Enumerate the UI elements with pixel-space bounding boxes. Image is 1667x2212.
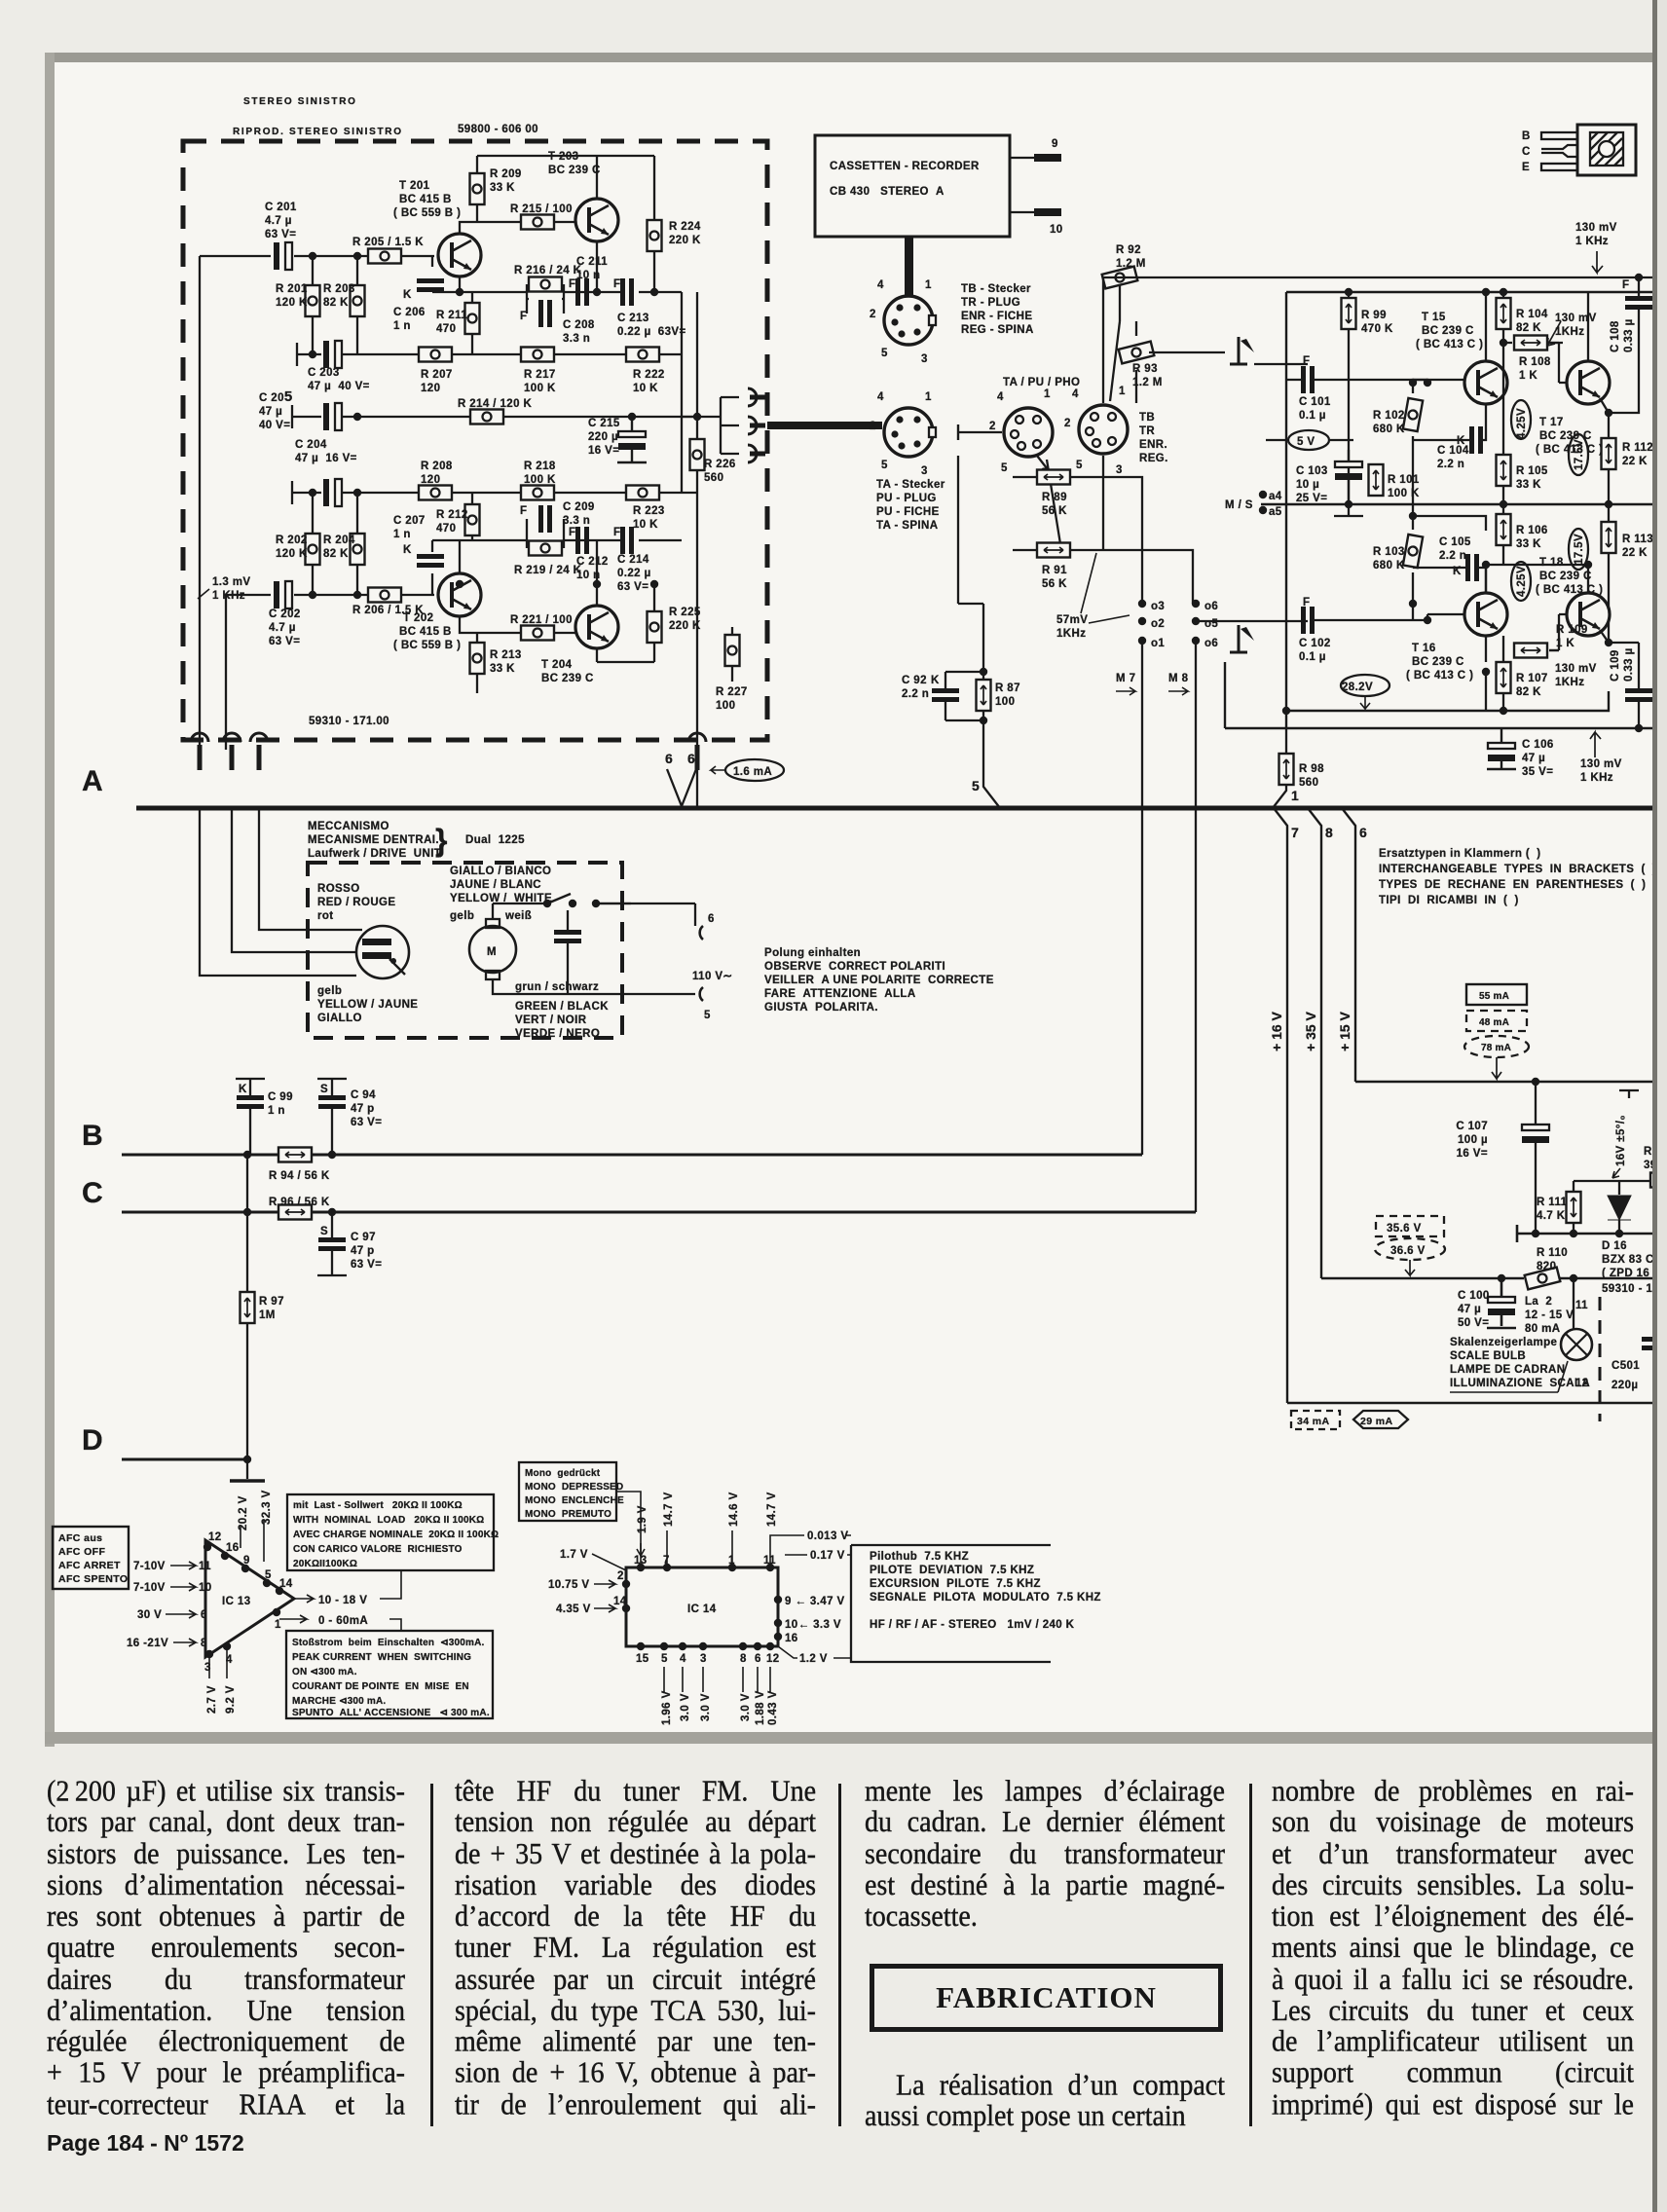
svg-text:MONO ENCLENCHE: MONO ENCLENCHE (525, 1495, 624, 1506)
svg-text:10← 3.3 V: 10← 3.3 V (785, 1619, 841, 1631)
capacitor C106 (1487, 728, 1554, 778)
mid supply rail (1517, 1225, 1667, 1242)
svg-text:0.1 µ: 0.1 µ (1299, 651, 1326, 663)
svg-text:K: K (403, 544, 412, 556)
svg-text:R 201: R 201 (276, 283, 308, 295)
svg-text:5: 5 (881, 348, 888, 359)
svg-text:57mV: 57mV (1056, 614, 1088, 626)
svg-text:1.2 M: 1.2 M (1116, 258, 1146, 270)
svg-text:63 V=: 63 V= (351, 1117, 382, 1128)
svg-text:SEGNALE PILOTA MODULATO 7.5: SEGNALE PILOTA MODULATO 7.5 KHZ (870, 1592, 1101, 1604)
svg-text:C 105: C 105 (1439, 536, 1471, 548)
svg-text:1.9 V: 1.9 V (637, 1505, 648, 1533)
svg-text:ON ⊲300 mA.: ON ⊲300 mA. (292, 1667, 357, 1677)
svg-text:6: 6 (708, 913, 715, 925)
capacitor C100 (1458, 1278, 1516, 1329)
ground below D (230, 1456, 265, 1481)
svg-text:2.2 n: 2.2 n (1439, 550, 1466, 562)
resistor R104 (1497, 292, 1548, 343)
motor switch (493, 894, 631, 919)
resistor R216 (514, 265, 582, 292)
svg-text:32.3 V: 32.3 V (261, 1490, 273, 1525)
svg-text:40 V=: 40 V= (259, 420, 290, 431)
svg-text:R 221 / 100: R 221 / 100 (510, 614, 573, 626)
svg-text:TR - PLUG: TR - PLUG (961, 297, 1020, 309)
mid rail (1261, 503, 1667, 505)
svg-text:2: 2 (870, 421, 876, 432)
resistor R89 (1037, 470, 1070, 518)
svg-text:a4: a4 (1269, 491, 1282, 502)
svg-text:8: 8 (740, 1653, 747, 1665)
svg-text:7-10V: 7-10V (133, 1561, 166, 1572)
svg-text:4: 4 (680, 1653, 686, 1665)
dial module dashed boundary (1575, 1297, 1600, 1421)
svg-text:4.7 K: 4.7 K (1537, 1210, 1566, 1222)
resistor R208 (419, 461, 453, 500)
svg-text:47 p: 47 p (351, 1245, 375, 1257)
capacitor C208 (520, 300, 595, 345)
test 36.6V oval (1375, 1238, 1445, 1275)
svg-text:IC 14: IC 14 (687, 1604, 717, 1615)
svg-text:MECANISME DENTRAI.: MECANISME DENTRAI. (308, 834, 439, 846)
svg-text:6: 6 (687, 751, 695, 766)
svg-text:56 K: 56 K (1042, 578, 1067, 590)
svg-text:gelb: gelb (450, 910, 474, 922)
capacitor C97 (317, 1212, 382, 1275)
svg-text:PILOTE DEVIATION 7.5 KHZ: PILOTE DEVIATION 7.5 KHZ (870, 1565, 1034, 1576)
svg-text:VERT / NOIR: VERT / NOIR (515, 1014, 587, 1026)
svg-text:1 KHz: 1 KHz (212, 590, 245, 602)
svg-text:o5: o5 (1204, 618, 1218, 630)
svg-text:TYPES DE RECHANE EN PARENT: TYPES DE RECHANE EN PARENTHESES ( ) (1379, 879, 1646, 891)
amp block outline (1225, 292, 1667, 728)
svg-text:47 µ 40 V=: 47 µ 40 V= (308, 381, 370, 392)
bus line C (122, 1211, 1196, 1214)
svg-text:La 2: La 2 (1525, 1296, 1552, 1308)
stereo decoder IC14 (548, 1492, 851, 1725)
resistor R204 (323, 534, 365, 565)
svg-text:10.75 V: 10.75 V (548, 1579, 589, 1591)
wire colours left (317, 883, 418, 1024)
svg-text:VEILLER A UNE POLARITE CORRE: VEILLER A UNE POLARITE CORRECTE (764, 975, 994, 986)
svg-text:HF / RF / AF - STEREO 1mV /: HF / RF / AF - STEREO 1mV / 240 K (870, 1619, 1075, 1631)
svg-text:2.2 n: 2.2 n (1437, 459, 1464, 470)
svg-text:2: 2 (870, 309, 876, 320)
FABRICATION box (870, 1964, 1223, 2032)
svg-text:F: F (1622, 279, 1629, 291)
mono pressed box (519, 1462, 645, 1556)
svg-text:47 µ 16 V=: 47 µ 16 V= (295, 453, 357, 464)
svg-text:D: D (82, 1424, 103, 1456)
resistor R108 (1503, 336, 1567, 383)
frame top gray band (45, 53, 1652, 62)
wires C92/R87 (945, 604, 1000, 808)
svg-text:14.7 V: 14.7 V (766, 1492, 778, 1527)
svg-text:4: 4 (997, 391, 1004, 403)
test current 1.6mA (697, 750, 784, 808)
svg-text:0.17 V: 0.17 V (810, 1550, 845, 1562)
svg-text:C 106: C 106 (1522, 739, 1554, 751)
load note box (287, 1494, 499, 1570)
svg-text:130 mV: 130 mV (1555, 313, 1597, 324)
transistor T202 (393, 573, 481, 651)
svg-text:C: C (1522, 146, 1531, 158)
svg-text:F: F (613, 527, 620, 538)
svg-text:F: F (1303, 597, 1310, 608)
resistor R203 (323, 283, 365, 316)
capacitor C99 (236, 1079, 293, 1155)
svg-text:10 - 18 V: 10 - 18 V (318, 1595, 367, 1606)
+35V rail with R110 (1321, 1247, 1667, 1289)
svg-text:220 µ: 220 µ (588, 431, 618, 443)
svg-text:R 109: R 109 (1556, 624, 1588, 636)
svg-text:56 K: 56 K (1042, 505, 1067, 517)
svg-text:C 107: C 107 (1456, 1121, 1488, 1132)
input level 1.3mV (198, 576, 250, 602)
svg-text:11: 11 (1575, 1300, 1588, 1311)
IC14 output labels right (770, 1535, 851, 1543)
svg-text:BC 239 C: BC 239 C (1422, 325, 1474, 337)
svg-text:AFC aus: AFC aus (58, 1532, 102, 1544)
svg-text:R 91: R 91 (1042, 565, 1067, 576)
svg-text:R 202: R 202 (276, 535, 308, 546)
peak current note box (286, 1631, 493, 1718)
svg-text:F: F (613, 278, 620, 290)
IC13 right labels (294, 1595, 314, 1603)
svg-text:10: 10 (1050, 224, 1063, 236)
svg-text:R 222: R 222 (633, 369, 665, 381)
svg-text:10: 10 (199, 1582, 212, 1594)
svg-text:120: 120 (421, 474, 440, 486)
text column 1 (47, 1776, 405, 2120)
bus line A (136, 806, 1667, 811)
svg-text:R 106: R 106 (1516, 525, 1548, 536)
transistor T18 circle (1549, 565, 1610, 650)
svg-text:16V ±5°/₀: 16V ±5°/₀ (1615, 1115, 1627, 1166)
resistor R209 (470, 168, 522, 204)
svg-text:220µ: 220µ (1611, 1380, 1638, 1391)
svg-text:mit Last - Sollwert 20KΩ II: mit Last - Sollwert 20KΩ II 100KΩ (293, 1500, 463, 1511)
svg-text:28.2V: 28.2V (1342, 682, 1373, 693)
svg-text:o6: o6 (1204, 601, 1218, 612)
level 130mV T15 (1547, 313, 1597, 346)
capacitor C206 (393, 278, 444, 332)
current 48mA dashed (1466, 1011, 1527, 1031)
svg-text:RED / ROUGE: RED / ROUGE (317, 897, 395, 908)
svg-text:12: 12 (1575, 1378, 1589, 1389)
svg-text:470: 470 (436, 323, 456, 335)
svg-text:C 103: C 103 (1296, 465, 1328, 477)
capacitor C203 (308, 341, 370, 392)
capacitor C104 (1413, 426, 1486, 470)
resistor R91 (1037, 543, 1070, 591)
svg-text:T 204: T 204 (541, 659, 573, 671)
svg-text:BC 239 C: BC 239 C (541, 673, 594, 684)
svg-text:100 K: 100 K (1388, 488, 1420, 499)
svg-text:Polung einhalten: Polung einhalten (764, 947, 861, 959)
+16V +35V +15V labels (1269, 1011, 1352, 1051)
svg-text:4.7 µ: 4.7 µ (265, 215, 292, 227)
svg-text:3: 3 (1116, 464, 1123, 476)
svg-text:1 KHz: 1 KHz (1575, 236, 1609, 247)
svg-text:YELLOW / JAUNE: YELLOW / JAUNE (317, 999, 418, 1011)
svg-text:C 211: C 211 (576, 256, 608, 268)
svg-text:47 µ: 47 µ (1522, 753, 1545, 764)
svg-text:8: 8 (1325, 825, 1333, 840)
svg-text:AFC ARRET: AFC ARRET (58, 1560, 121, 1571)
svg-text:34 mA: 34 mA (1297, 1416, 1330, 1427)
svg-text:MONO PREMUTO: MONO PREMUTO (525, 1509, 611, 1520)
svg-text:R 102: R 102 (1373, 410, 1405, 422)
svg-text:16 -21V: 16 -21V (127, 1638, 168, 1649)
svg-text:14: 14 (279, 1578, 293, 1590)
svg-text:S: S (320, 1226, 328, 1237)
socket TB TR ENR REG (1064, 386, 1168, 476)
svg-text:C 208: C 208 (563, 319, 595, 331)
pilot deviation bracket (851, 1545, 1101, 1662)
current 34mA dashed (1291, 1411, 1340, 1429)
svg-text:560: 560 (704, 472, 723, 484)
svg-text:Stoßstrom beim Einschalten: Stoßstrom beim Einschalten ⊲300mA. (292, 1638, 485, 1648)
svg-text:ROSSO: ROSSO (317, 883, 360, 895)
svg-text:K: K (403, 289, 412, 301)
svg-text:R 105: R 105 (1516, 465, 1548, 477)
svg-text:63 V=: 63 V= (351, 1259, 382, 1271)
capacitor C501 (1611, 1337, 1667, 1391)
svg-text:CON CARICO VALORE RICHIESTO: CON CARICO VALORE RICHIESTO (293, 1544, 463, 1555)
svg-text:5: 5 (1076, 460, 1083, 471)
svg-text:0.22 µ 63V=: 0.22 µ 63V= (617, 326, 686, 338)
svg-text:R 87: R 87 (995, 682, 1020, 694)
resistor R219 (514, 541, 582, 577)
svg-text:T 203: T 203 (548, 151, 578, 163)
svg-text:R 211: R 211 (436, 310, 467, 321)
svg-text:BC 239 C: BC 239 C (548, 165, 601, 176)
page right edge line (1652, 0, 1657, 2212)
svg-text:AFC OFF: AFC OFF (58, 1546, 105, 1558)
svg-text:2: 2 (989, 421, 996, 432)
svg-text:R 212: R 212 (436, 509, 468, 521)
svg-text:12 - 15 V: 12 - 15 V (1525, 1309, 1574, 1321)
svg-text:EXCURSION PILOTE 7.5 KHZ: EXCURSION PILOTE 7.5 KHZ (870, 1578, 1041, 1590)
capacitor C207 (393, 515, 444, 568)
svg-text:AFC SPENTO: AFC SPENTO (58, 1573, 128, 1585)
svg-text:BC 239 C: BC 239 C (1412, 656, 1464, 668)
svg-text:R 98: R 98 (1299, 763, 1324, 775)
resistor R225 (648, 607, 701, 643)
pickup cartridge (356, 926, 409, 978)
svg-text:R 213: R 213 (490, 649, 522, 661)
M7 label (1116, 673, 1135, 695)
svg-text:0 - 60mA: 0 - 60mA (318, 1615, 368, 1627)
svg-text:5: 5 (972, 778, 980, 793)
svg-text:( BC 413 C ): ( BC 413 C ) (1406, 670, 1473, 682)
zener diode D16 (1602, 1181, 1667, 1279)
resistor R93 (1119, 321, 1163, 403)
svg-text:130 mV: 130 mV (1555, 663, 1597, 675)
capacitor C103 (1296, 450, 1363, 516)
svg-text:5: 5 (881, 460, 888, 471)
capacitor C213 (613, 278, 686, 338)
svg-text:F: F (520, 505, 527, 517)
frame left gray band (45, 53, 55, 1747)
svg-text:M 8: M 8 (1168, 673, 1189, 684)
svg-text:INTERCHANGEABLE TYPES IN BR: INTERCHANGEABLE TYPES IN BRACKETS ( ) (1379, 864, 1656, 875)
svg-text:K: K (239, 1084, 247, 1095)
svg-text:100 µ: 100 µ (1458, 1134, 1488, 1146)
thick cable to TB plug (905, 237, 913, 297)
svg-text:F: F (520, 311, 527, 322)
svg-text:B: B (82, 1120, 103, 1152)
svg-text:a5: a5 (1269, 506, 1282, 518)
wires lower amp (1413, 458, 1588, 711)
wire long output to amp (1103, 276, 1667, 278)
resistor R102 (1373, 380, 1427, 458)
jack 2 (223, 733, 241, 770)
svg-text:SCALE BULB: SCALE BULB (1450, 1350, 1526, 1362)
svg-text:C 97: C 97 (351, 1232, 376, 1243)
test 28.2V (1341, 675, 1389, 709)
svg-text:OBSERVE CORRECT POLARITI: OBSERVE CORRECT POLARITI (764, 961, 945, 973)
resistor R106 (1497, 504, 1548, 565)
resistor R105 (1497, 343, 1548, 504)
jack R (748, 445, 765, 462)
svg-text:2.7 V: 2.7 V (206, 1685, 218, 1714)
svg-text:o2: o2 (1151, 618, 1165, 630)
page interior (54, 60, 1652, 1737)
text column 2 (455, 1776, 816, 2120)
svg-text:220 K: 220 K (669, 620, 701, 632)
svg-text:47 µ: 47 µ (1458, 1304, 1481, 1315)
svg-text:R 104: R 104 (1516, 309, 1548, 320)
svg-text:1M: 1M (259, 1309, 276, 1321)
svg-text:5: 5 (661, 1653, 668, 1665)
svg-text:C 207: C 207 (393, 515, 426, 527)
svg-text:0.43 V: 0.43 V (767, 1690, 779, 1725)
svg-text:C 206: C 206 (393, 307, 426, 318)
output jacks (left board edge) (191, 733, 706, 770)
transistor T203 (548, 151, 618, 241)
svg-text:CB 430 STEREO A: CB 430 STEREO A (830, 186, 945, 198)
svg-text:MARCHE ⊲300 mA.: MARCHE ⊲300 mA. (292, 1696, 386, 1707)
svg-text:GIUSTA POLARITA.: GIUSTA POLARITA. (764, 1002, 878, 1014)
preamp wires (200, 156, 732, 750)
svg-text:4.35 V: 4.35 V (556, 1604, 591, 1615)
resistor R101 (1369, 464, 1420, 499)
svg-text:R 203: R 203 (323, 283, 355, 295)
svg-text:C 214: C 214 (617, 554, 649, 566)
motor M (469, 919, 516, 979)
svg-text:Ersatztypen in Klammern ( ): Ersatztypen in Klammern ( ) (1379, 848, 1540, 860)
svg-text:9: 9 (243, 1555, 250, 1567)
svg-text:R 101: R 101 (1388, 474, 1420, 486)
svg-text:R 223: R 223 (633, 505, 665, 517)
svg-text:6: 6 (1359, 825, 1367, 840)
svg-text:TB - Stecker: TB - Stecker (961, 283, 1031, 295)
scale lamp caption (1450, 1337, 1590, 1392)
current 78mA oval (1464, 1036, 1529, 1079)
svg-text:7-10V: 7-10V (133, 1582, 166, 1594)
capacitor C209 (520, 501, 595, 533)
svg-text:R 103: R 103 (1373, 546, 1405, 558)
svg-text:o1: o1 (1151, 638, 1165, 649)
capacitor C204 (295, 439, 357, 506)
resistor R215 (510, 203, 573, 230)
svg-text:ENR.: ENR. (1139, 439, 1167, 451)
svg-text:CASSETTEN - RECORDER: CASSETTEN - RECORDER (830, 161, 980, 172)
svg-text:4.7 µ: 4.7 µ (269, 622, 296, 634)
svg-text:7: 7 (1291, 825, 1299, 840)
svg-text:TB: TB (1139, 412, 1155, 424)
motor capacitor (554, 910, 581, 959)
resistor R113 (1602, 504, 1654, 643)
svg-text:weiß: weiß (504, 910, 532, 922)
test 4.25V upper (1511, 400, 1531, 439)
resistor R224 (648, 220, 701, 251)
transistor T201 (393, 180, 481, 276)
svg-text:3.0 V: 3.0 V (700, 1693, 712, 1721)
svg-text:47 µ: 47 µ (259, 406, 282, 418)
svg-text:10 n: 10 n (576, 570, 601, 581)
svg-text:R 207: R 207 (421, 369, 453, 381)
svg-text:C501: C501 (1611, 1360, 1640, 1372)
svg-text:1: 1 (1044, 388, 1051, 400)
jack M (748, 417, 765, 434)
resistor R227 (716, 635, 748, 712)
svg-text:C: C (82, 1177, 103, 1209)
jack R226 out (688, 733, 706, 770)
AFC box (53, 1527, 129, 1589)
svg-text:R 110: R 110 (1537, 1247, 1568, 1259)
svg-text:Mono gedrückt: Mono gedrückt (525, 1468, 601, 1479)
svg-text:25 V=: 25 V= (1296, 493, 1327, 504)
capacitor C211 (569, 256, 608, 306)
svg-text:PU - FICHE: PU - FICHE (876, 506, 940, 518)
svg-text:82 K: 82 K (1516, 322, 1541, 334)
svg-text:3.3 n: 3.3 n (563, 515, 590, 527)
resistor R99 (1342, 292, 1393, 504)
svg-text:R 216 / 24 K: R 216 / 24 K (514, 265, 582, 276)
svg-text:22 K: 22 K (1622, 547, 1648, 559)
svg-text:4: 4 (1072, 388, 1079, 400)
svg-text:T 202: T 202 (403, 612, 433, 624)
capacitor C92 (902, 672, 959, 720)
svg-text:9.2 V: 9.2 V (225, 1685, 237, 1714)
socket TA/PU/PHO (958, 377, 1080, 479)
svg-text:5 V: 5 V (1297, 436, 1315, 448)
resistor R221 (510, 614, 573, 641)
svg-text:gelb: gelb (317, 985, 342, 997)
svg-text:3.0 V: 3.0 V (680, 1693, 691, 1721)
lamp La2 label (1525, 1296, 1574, 1335)
svg-text:0.33 µ: 0.33 µ (1623, 647, 1635, 682)
svg-text:GIALLO / BIANCO: GIALLO / BIANCO (450, 866, 551, 877)
svg-text:30 V: 30 V (137, 1609, 162, 1621)
svg-text:+ 15 V: + 15 V (1337, 1011, 1352, 1051)
svg-text:9: 9 (1052, 138, 1058, 150)
svg-text:2.2 n: 2.2 n (902, 688, 929, 700)
spare types note (1379, 848, 1656, 906)
svg-text:1 n: 1 n (393, 320, 411, 332)
resistor R205 (352, 237, 424, 264)
svg-text:3: 3 (921, 353, 928, 365)
IC14 top pins (637, 1564, 645, 1571)
svg-text:470: 470 (436, 523, 456, 535)
svg-text:C 202: C 202 (269, 608, 301, 620)
svg-text:100 K: 100 K (524, 474, 556, 486)
wire to pin 10 (1010, 211, 1034, 213)
svg-text:17.5V: 17.5V (1574, 534, 1585, 565)
